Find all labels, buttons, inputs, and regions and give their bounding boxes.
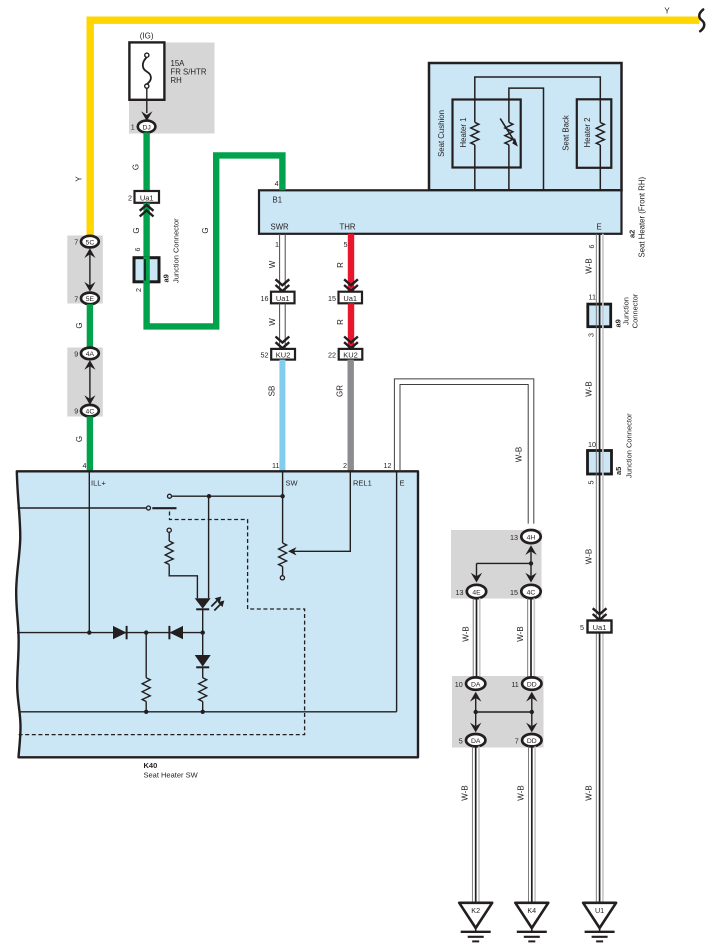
svg-text:1: 1 [275,240,279,249]
connector 4A oval [81,348,99,360]
svg-text:5: 5 [587,481,596,485]
connector KU2 (pin 22) box [339,349,363,360]
svg-text:E: E [400,479,405,488]
svg-text:22: 22 [328,351,336,360]
wire inside unit: top horizontal [475,77,601,123]
svg-text:1: 1 [131,123,135,132]
wire 4H to branch node [530,549,532,563]
wire REL1 vertical and wiper [294,471,350,551]
node junction dot (DD rail) [530,710,534,714]
node junction dot (between diodes) [144,630,148,634]
arrowhead wiper into potentiometer [288,547,297,555]
wire heater1 bottom lead [474,145,476,191]
connector DA (pin 10) oval [466,677,485,689]
svg-text:THR: THR [340,223,356,232]
svg-text:a5: a5 [614,467,623,475]
wire R2 to bottom rail [145,702,147,712]
connector DA (pin 5) oval [466,734,485,746]
svg-text:7: 7 [515,737,519,746]
wire switch feed from left edge [18,507,147,509]
wire G (green) DJ to Ua1 [143,133,149,192]
wire W-B DD down to ground K4 [529,746,536,902]
wire LED cathode down [202,609,204,632]
junction connector a9 (right) box [588,304,611,327]
switch blade [152,507,176,509]
connector 4C oval (right group) [521,585,540,598]
svg-text:Ua1: Ua1 [343,294,357,303]
node junction dot (R2 bottom) [144,710,148,714]
resistor R1 (LED series) [165,541,173,565]
connector 5E oval [81,293,99,305]
chevron arrows down into KU2 (52) [276,337,290,343]
connector DD (pin 11) oval [522,677,541,689]
K40 Seat Heater SW block (blue with torn left edge) [16,471,418,757]
svg-text:DJ: DJ [142,124,150,131]
wire W (white) SWR to Ua1 [279,234,281,292]
shield gray box around connectors DA/DD [452,676,544,748]
svg-text:4H: 4H [527,535,536,542]
shield gray box around connectors 5C/5E [67,236,103,304]
svg-text:Ua1: Ua1 [276,294,290,303]
svg-text:4C: 4C [527,590,536,597]
diode D3 (pointing left) [169,626,183,639]
svg-text:9: 9 [74,349,78,358]
svg-text:Connector: Connector [631,293,640,328]
wire GR (gray) KU2 to K40 REL1 [348,360,354,472]
arrow up into DA (10) [470,692,481,702]
wire E vertical inside K40 [396,471,398,712]
wire DD to rail [531,696,533,713]
wire rail between DA and DD [476,711,532,713]
chevron arrows down into Ua1 (16) [276,279,290,285]
connector KU2 (pin 52) box [271,349,295,360]
junction connector a9 (left) box [134,258,159,282]
connector DD (pin 7) oval [522,734,541,746]
wire diode row horizontal [17,632,203,634]
svg-text:ILL+: ILL+ [91,479,106,488]
svg-text:SWR: SWR [271,223,290,232]
svg-text:KU2: KU2 [343,351,358,360]
svg-text:W-B: W-B [585,549,594,564]
svg-text:G: G [75,436,84,442]
chevron arrows down into Ua1 (5) [593,608,607,614]
wire W-B (right column) B1 E to ground U1 [596,234,603,903]
wire W-B DA down to ground K2 [472,746,479,902]
svg-text:a2: a2 [628,230,637,238]
wire SW vertical [282,471,284,543]
svg-text:K2: K2 [471,906,480,915]
svg-text:5E: 5E [86,296,95,303]
svg-text:DA: DA [471,738,481,745]
wire between 5C and 5E [89,252,91,288]
svg-text:W-B: W-B [461,785,470,800]
wire W-B 4E down to DA [473,598,480,677]
wire G (green) 4C to K40 [87,417,93,472]
fuse top terminal circle [145,53,149,57]
continuation squiggle at right end of yellow wire [699,10,704,32]
connector bar B1 (blue) [259,190,622,234]
resistor variable (thermistor) in seat cushion [505,122,513,145]
connector Ua1 (pin 5) box [588,621,612,633]
svg-text:10: 10 [588,440,596,449]
resistor variable (SW potentiometer) [279,543,287,567]
svg-text:4A: 4A [86,351,95,358]
node junction dot (DA rail) [474,710,478,714]
svg-text:4E: 4E [472,590,481,597]
svg-text:10: 10 [455,680,463,689]
svg-text:G: G [75,322,84,328]
wire R3 to bottom rail [202,702,204,712]
svg-text:DD: DD [527,682,537,689]
resistor R2 [142,678,150,702]
wire LED branch to diode D4 [202,633,204,655]
svg-text:U1: U1 [595,906,604,915]
svg-text:W: W [268,318,277,326]
wire resistor to LED anode [169,565,197,599]
arrowhead into connector DJ [141,111,152,121]
svg-text:W-B: W-B [585,785,594,800]
heater 2 box outline [577,99,612,168]
connector 4H oval [521,530,540,543]
LED D1 (illumination) [195,598,211,608]
wire W (white) Ua1 to KU2 [279,303,281,349]
node junction dot (4H branch) [529,561,533,565]
svg-text:DD: DD [527,738,537,745]
wire DA to rail [475,696,477,713]
svg-text:K4: K4 [527,906,536,915]
svg-text:4C: 4C [86,409,95,416]
svg-text:Seat Heater SW: Seat Heater SW [144,771,199,780]
node junction dot (SW) [280,494,284,498]
svg-text:W-B: W-B [462,626,471,641]
wire R (red) Ua1 to KU2 [348,303,354,349]
svg-text:R: R [336,319,345,325]
svg-text:W-B: W-B [585,258,594,273]
svg-text:R: R [336,262,345,268]
svg-text:11: 11 [511,680,518,689]
fuse element S-curve [143,57,151,84]
svg-text:Seat Heater (Front RH): Seat Heater (Front RH) [638,177,647,258]
wire branch horizontal [477,562,532,564]
svg-text:W: W [268,260,277,268]
wire SB (sky blue) KU2 to K40 SW [279,360,285,472]
svg-text:a9: a9 [162,274,171,282]
heater 1 box outline [453,100,521,168]
diode D2 (pointing right) [113,626,127,639]
svg-text:REL1: REL1 [353,479,372,488]
arrow up into 4H [525,545,536,555]
arrow down into 4C [525,573,536,583]
ground U1 [583,903,616,942]
svg-text:13: 13 [456,588,464,597]
resistor R3 [199,678,207,702]
shield gray box around connectors 4H/4E/4C [451,530,542,599]
svg-text:7: 7 [74,238,78,247]
chevron arrows up into Ua1 (pin2) [140,205,154,211]
fuse FR S/HTR RH box [129,42,164,99]
wire inside unit: second horizontal [509,88,544,190]
arrow across variable resistor [500,119,515,143]
arrow down into 4E [471,573,482,583]
svg-text:Seat Back: Seat Back [562,115,571,151]
arrow up into 5C [84,248,95,258]
svg-text:16: 16 [261,294,269,303]
svg-text:E: E [597,223,602,232]
svg-text:4: 4 [83,461,87,470]
svg-text:5: 5 [459,737,463,746]
wire variable resistor bottom lead [508,145,510,191]
junction connector a5 box [588,451,612,475]
svg-text:2: 2 [343,461,347,470]
dashed mechanical linkage [17,512,305,735]
arrow up into DD (11) [526,692,537,702]
wire G (green) 5E to 4A [87,304,93,348]
wire branch to 4C [530,563,532,578]
connector 5C oval [81,236,99,248]
chevron arrows down into Ua1 (15) [344,279,358,285]
wire R (red) THR to Ua1 [348,234,354,292]
wire bottom rail to E [20,711,397,713]
arrow down into 5E [84,282,95,292]
svg-text:Junction Connector: Junction Connector [172,218,181,283]
svg-text:5: 5 [344,240,348,249]
svg-text:15: 15 [328,294,336,303]
seat heater unit block a2 (blue) [429,63,622,190]
connector Ua1 (pin 16) box [271,292,295,304]
ground K4 [515,903,548,942]
svg-text:RH: RH [171,76,182,85]
svg-text:Junction: Junction [622,297,631,325]
wire heater2 bottom lead [599,145,601,190]
node junction dot (LED/diode row) [201,630,205,634]
svg-text:Junction Connector: Junction Connector [625,413,634,478]
arrow down into DD (7) [526,723,537,733]
wire branch to 4E [476,563,478,578]
LED light arrows [211,599,218,606]
svg-text:9: 9 [74,407,78,416]
wire fuse bottom lead [146,88,148,113]
svg-text:5C: 5C [86,239,95,246]
svg-text:W-B: W-B [517,785,526,800]
arrow down into DA (5) [470,723,481,733]
svg-text:G: G [132,164,141,170]
svg-text:Y: Y [75,176,84,182]
svg-text:W-B: W-B [516,626,525,641]
open terminal circle below potentiometer [280,576,284,580]
svg-text:11: 11 [589,293,596,302]
svg-text:B1: B1 [273,196,283,205]
wire R2 branch down [145,633,147,678]
svg-text:G: G [132,227,141,233]
svg-text:7: 7 [74,294,78,303]
svg-text:SW: SW [286,479,299,488]
open terminal circle above resistor R1 [167,528,171,532]
svg-text:GR: GR [336,385,345,397]
arrow up into 4A [84,360,95,370]
node junction dot (ILL+ to diode row) [87,630,91,634]
chevron arrows down into KU2 (22) [344,337,358,343]
svg-text:12: 12 [384,461,392,470]
connector 4E oval [467,585,486,598]
svg-text:Heater 2: Heater 2 [583,118,592,148]
wire ILL+ vertical inside K40 [88,471,90,632]
resistor Heater 1 [471,122,479,145]
wire G (green) Ua1 through a9 looping to B1 pin 4 [147,155,283,326]
switch upper contact circle [168,494,172,498]
svg-text:(IG): (IG) [140,32,154,41]
svg-text:11: 11 [272,461,279,470]
fuse bottom terminal circle [145,84,149,88]
wire Y (yellow) horizontal from fuse branch to right edge [90,20,699,235]
wire W-B loop K40 E pin 12 up to connector 4H [394,379,533,524]
wire rail to DA (5) [475,712,477,726]
svg-text:G: G [201,227,210,233]
ground K2 [459,903,492,942]
diode D4 (pointing down) [195,655,211,667]
svg-text:Y: Y [664,7,670,16]
svg-text:Ua1: Ua1 [140,194,154,203]
svg-text:Seat Cushion: Seat Cushion [437,110,446,157]
arrow down into 4C [84,395,95,405]
svg-text:2: 2 [134,288,143,292]
svg-text:3: 3 [587,333,596,337]
svg-text:2: 2 [128,194,132,203]
svg-text:W-B: W-B [585,381,594,396]
wire circle to resistor [168,532,170,541]
node junction dot (LED branch) [207,494,211,498]
switch common contact circle [147,506,151,510]
wire rail to DD (7) [531,712,533,726]
svg-text:4: 4 [275,179,279,188]
shield gray box around connectors 4A/4C [67,348,103,417]
connector 4C oval (left column) [81,405,99,417]
wire switch contact to SW node [172,495,283,497]
svg-text:52: 52 [261,351,269,360]
wire D4 to R3 [202,667,204,678]
svg-text:13: 13 [510,533,518,542]
wire W-B 4C down to DD [528,598,535,677]
connector Ua1 (pin 15) box [339,292,363,304]
wire between 4A and 4C [89,364,91,400]
node junction dot (R3 bottom) [201,710,205,714]
svg-text:Heater 1: Heater 1 [459,118,468,148]
shield gray box around fuse [129,43,215,134]
svg-text:SB: SB [268,386,277,397]
connector Ua1 (pin 2) box [135,191,160,203]
svg-text:5: 5 [580,623,584,632]
svg-text:Ua1: Ua1 [593,623,607,632]
svg-text:15: 15 [510,588,518,597]
wire below potentiometer [282,567,284,576]
svg-text:K40: K40 [144,761,158,770]
connector DJ oval [138,121,156,133]
resistor Heater 2 [596,123,604,146]
svg-text:W-B: W-B [515,447,524,462]
svg-text:6: 6 [587,245,596,249]
svg-text:KU2: KU2 [276,351,291,360]
svg-text:6: 6 [133,248,142,252]
svg-text:DA: DA [471,682,481,689]
wire LED feed from switch node [208,496,210,598]
